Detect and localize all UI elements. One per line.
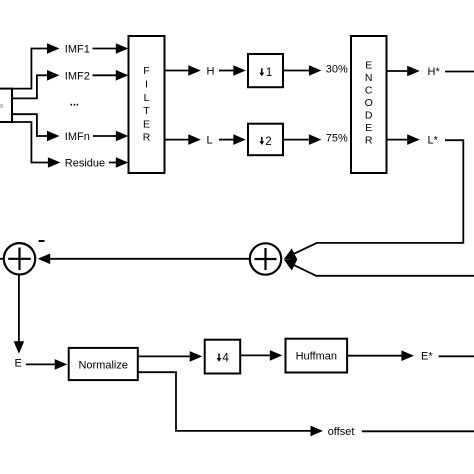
svg-text:F: F — [143, 65, 149, 77]
arrow L* feedback into summing junction S2 — [284, 248, 298, 259]
wire Normalize to downsampler 4 — [138, 355, 190, 357]
arrow into IMF2 label — [47, 70, 60, 81]
block Normalize — [69, 348, 138, 380]
svg-text:O: O — [365, 97, 373, 109]
svg-text:IMF2: IMF2 — [65, 70, 90, 82]
svg-text:E: E — [15, 358, 22, 370]
arrow into Huffman — [270, 350, 283, 361]
wire from source to IMF1 — [12, 49, 47, 89]
svg-text:R: R — [143, 132, 151, 144]
wire Normalize offset branch — [138, 372, 311, 431]
wire H* feedback from right edge into summing junction S2 — [290, 263, 474, 276]
wire FILTER to L — [165, 139, 189, 141]
svg-text:IMF1: IMF1 — [65, 44, 90, 56]
arrow IMF2 into FILTER — [116, 70, 129, 81]
svg-text:IMFn: IMFn — [65, 131, 90, 143]
block Huffman — [286, 339, 348, 373]
svg-text:L: L — [144, 92, 150, 104]
wire E* to right edge — [439, 355, 474, 357]
block FILTER — [129, 36, 165, 173]
wire Huffman to E* — [347, 355, 401, 357]
svg-text:N: N — [365, 72, 373, 84]
wire FILTER to H — [165, 70, 189, 72]
svg-text:H: H — [207, 66, 215, 78]
arrow E into Normalize — [55, 359, 67, 370]
arrow into H* label — [407, 66, 420, 77]
summing junction S2 — [250, 243, 281, 274]
arrow into L label — [188, 134, 201, 145]
arrow L into downsampler 2 — [233, 134, 246, 145]
arrow into downsampler 4 — [190, 351, 203, 362]
arrow into L* label — [407, 134, 420, 145]
wire L to downsampler 2 — [219, 139, 233, 141]
minus sign at summing junction S1 — [39, 240, 45, 242]
block ENCODER — [351, 36, 387, 173]
svg-text:1: 1 — [266, 67, 272, 79]
wire downsampler 4 to Huffman — [240, 354, 270, 356]
arrow into 30% label — [309, 65, 322, 76]
wire E to Normalize — [26, 363, 55, 365]
svg-text:E*: E* — [421, 351, 433, 363]
svg-text:E: E — [365, 122, 372, 134]
arrow H* feedback into summing junction S2 — [284, 259, 298, 270]
svg-text:30%: 30% — [326, 63, 348, 75]
wire Residue to FILTER — [109, 162, 116, 164]
wire IMF2 to FILTER — [93, 74, 117, 76]
svg-text:E: E — [143, 118, 150, 130]
wire from source to IMF2 — [12, 75, 47, 98]
block downsampler D1 (down-arrow 1) — [248, 54, 283, 87]
wire H to downsampler 1 — [219, 70, 233, 72]
wire downsampler 2 to 75% — [283, 139, 309, 141]
arrow down into E label — [14, 341, 25, 354]
wire H* to right edge — [445, 71, 474, 73]
wire summing junction S1 down to E — [18, 275, 20, 342]
svg-text:E: E — [365, 60, 372, 72]
arrow Residue into FILTER — [116, 157, 129, 168]
svg-text:T: T — [143, 105, 150, 117]
svg-text:I: I — [145, 79, 148, 91]
wire L* feedback down and left to summing junction S2 — [290, 140, 464, 256]
wire downsampler 1 to 30% — [283, 70, 309, 72]
arrow into 75% label — [309, 134, 322, 145]
summing junction S1 — [4, 243, 35, 274]
arrow into H label — [188, 65, 201, 76]
svg-text:H*: H* — [428, 66, 441, 78]
wire IMF1 to FILTER — [93, 48, 117, 50]
svg-text:2: 2 — [265, 136, 271, 148]
svg-text:D: D — [365, 110, 373, 122]
svg-text:offset: offset — [328, 426, 355, 438]
arrow into summing junction S1 — [38, 254, 51, 265]
svg-text:75%: 75% — [326, 132, 348, 144]
wire ENCODER to H* — [387, 70, 408, 72]
arrow IMF1 into FILTER — [116, 43, 129, 54]
arrow into E* label — [401, 350, 414, 361]
wire from source to Residue — [12, 122, 48, 163]
svg-text:R: R — [365, 135, 373, 147]
svg-text:L*: L* — [428, 135, 439, 147]
arrow IMFn into FILTER — [116, 131, 129, 142]
svg-text:Normalize: Normalize — [78, 359, 128, 371]
arrow into Residue label — [48, 157, 61, 168]
wire input stub into summing junction S1 from left edge — [0, 258, 4, 260]
svg-text:4: 4 — [222, 353, 229, 365]
arrow into offset label — [311, 426, 324, 437]
arrow into IMF1 label — [47, 43, 60, 54]
wire summing junction S2 to summing junction S1 — [50, 258, 250, 260]
svg-text:L: L — [207, 135, 213, 147]
block downsampler D4 (down-arrow 4) — [205, 340, 241, 374]
wire ENCODER to L* — [387, 139, 408, 141]
wire from source to IMFn — [12, 114, 47, 136]
svg-text:C: C — [365, 85, 373, 97]
svg-text:...: ... — [70, 97, 79, 109]
svg-text:Residue: Residue — [65, 158, 105, 170]
arrow H into downsampler 1 — [233, 65, 246, 76]
wire offset to right edge — [362, 430, 474, 432]
svg-text:Huffman: Huffman — [296, 350, 337, 362]
arrow into IMFn label — [47, 131, 60, 142]
wire IMFn to FILTER — [93, 135, 116, 137]
block EMD source (cut off at left edge) — [0, 89, 12, 122]
block downsampler D2 (down-arrow 2) — [248, 124, 283, 156]
